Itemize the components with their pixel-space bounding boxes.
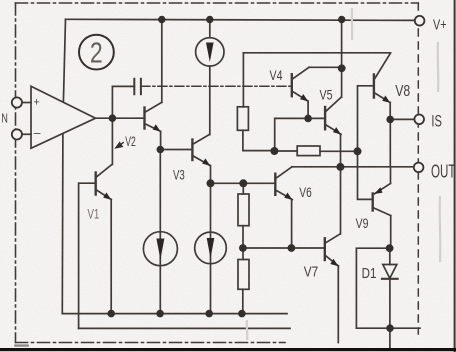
boundary dashed right — [417, 3, 419, 334]
wire V4 emitter node to V5 base — [308, 117, 325, 119]
svg-text:–: – — [34, 126, 41, 140]
svg-text:V7: V7 — [304, 264, 319, 281]
wire +input — [22, 102, 31, 104]
transistor V1 — [80, 164, 112, 313]
wire V1 base to ground line — [78, 183, 80, 328]
resistor R4 — [238, 260, 249, 290]
capacitor C1 — [112, 85, 134, 87]
boundary dash-dot left — [15, 3, 17, 343]
svg-text:IS: IS — [431, 111, 442, 130]
node: V6 emitter / V7 base wire — [288, 244, 296, 252]
V8 collector horizontal wire — [243, 52, 390, 54]
wire V2 emitter node to V3 base — [160, 149, 192, 151]
node: bus / current source I2 — [156, 310, 164, 318]
svg-text:OUT: OUT — [431, 161, 456, 182]
scan artifact: right edge dark line — [454, 0, 456, 352]
node: bus / V1 emitter — [107, 310, 115, 318]
svg-text:V8: V8 — [395, 83, 410, 100]
svg-text:V+: V+ — [433, 16, 447, 33]
wire V4 emitter node left and down to R1 node — [275, 118, 308, 151]
node: rail / V5 collector — [338, 16, 345, 23]
terminal N- — [12, 129, 22, 139]
node: bus / R4 bottom — [238, 310, 246, 318]
arrow current source I1 — [206, 43, 214, 63]
current source I3 (bottom middle) — [195, 232, 227, 264]
node: node A / R3 top — [239, 179, 247, 187]
svg-text:V9: V9 — [356, 215, 369, 231]
arrow V4 emitter — [300, 94, 308, 101]
svg-text:V3: V3 — [173, 166, 185, 182]
arrow V1 emitter — [103, 192, 111, 199]
svg-text:D1: D1 — [362, 265, 377, 282]
terminal V+ — [415, 16, 425, 26]
wire node A to R3 — [242, 183, 244, 194]
wire R3 to node B — [242, 226, 244, 260]
arrow V2 emitter — [153, 124, 161, 131]
transistor V2 — [145, 20, 162, 150]
svg-text:+: + — [33, 97, 39, 109]
wire R1 bottom to node — [243, 130, 275, 150]
svg-text:V6: V6 — [299, 184, 312, 200]
node: V4/V5 collectors — [338, 64, 346, 72]
node: V9 collector / D1 anode — [386, 244, 394, 252]
arrow V5 emitter — [333, 127, 341, 134]
op-amp U1 triangle — [31, 86, 96, 148]
arrow V6 emitter — [284, 193, 292, 200]
arrow V7 emitter — [330, 259, 338, 266]
terminal N+ — [12, 97, 22, 107]
left long vertical wire — [63, 19, 65, 102]
scan artifact: bottom black bar — [0, 348, 456, 351]
wire V8 base — [358, 86, 374, 152]
wire R2 right to V8 base node — [320, 150, 358, 152]
boundary dash-dot top — [16, 2, 419, 4]
node: R1 bottom / V4 divider — [270, 147, 278, 155]
arrow current source I3 — [207, 238, 215, 259]
svg-text:V1: V1 — [87, 205, 99, 221]
circled 2 (block marker) — [79, 35, 114, 70]
wire node B to V7 base — [243, 247, 325, 249]
node: D1 cathode / ground line — [386, 324, 394, 332]
V+ top rail — [66, 19, 415, 20]
node: bus / current source I3 — [205, 310, 213, 318]
arrow V9 emitter (pnp, into base) — [374, 187, 382, 194]
current source I1 (top) — [196, 20, 224, 135]
node: R3/R4 divider / V7 base wire — [239, 244, 247, 252]
compensation dash-dot wire to V4 base — [141, 85, 292, 87]
node: V3 emitter / node A — [207, 179, 215, 187]
OUT rail wire — [292, 166, 414, 168]
wire V2 emitter node down through current source to bus — [159, 150, 161, 314]
node: V2 emitter / V3 base — [157, 146, 165, 154]
transistor V6 — [275, 167, 292, 248]
svg-text:V5: V5 — [320, 87, 333, 103]
scan blob bottom left — [14, 344, 29, 346]
lower ground wire left segment — [79, 327, 290, 329]
wire V8 emitter node to IS terminal — [390, 118, 414, 120]
resistor R2 (horizontal) — [297, 146, 320, 156]
arrow current source I2 — [156, 239, 164, 260]
lower ground wire right segment — [356, 327, 420, 329]
svg-text:N: N — [1, 111, 8, 126]
bottom bus wire — [62, 313, 287, 315]
wire R4 bottom to bus — [242, 289, 244, 313]
diode D1 — [382, 248, 398, 348]
node: rail / current source I1 — [206, 16, 213, 23]
svg-text:V2: V2 — [125, 134, 136, 149]
wire node to horizontal resistor — [274, 150, 297, 152]
transistor V4 — [292, 67, 342, 118]
current source I2 (bottom left) — [143, 232, 177, 266]
svg-text:2: 2 — [90, 38, 103, 70]
wire top of resistor chain from V8 collector rail — [242, 53, 244, 107]
terminal OUT — [414, 163, 424, 173]
emitter / source arrows — [103, 43, 390, 267]
wire output node to capacitor / V1 collector — [111, 86, 113, 164]
wire V8 emitter node down to OUT rail — [389, 119, 391, 166]
resistor R3 — [238, 194, 249, 226]
wire op-amp output to V2 base — [96, 117, 145, 119]
transistor V9 (pnp) — [373, 167, 391, 248]
svg-text:V4: V4 — [270, 67, 283, 83]
wire node A horizontal (V3 emitter to V6 base) — [211, 182, 276, 184]
terminals — [12, 16, 425, 172]
wire -input — [22, 133, 31, 135]
wire V3 emitter node down through current source to bus — [210, 183, 212, 313]
node: rail / V2 collector — [158, 16, 165, 23]
node: V8 base / R2 — [354, 147, 362, 155]
transistor V7 — [325, 234, 340, 343]
arrow V8 emitter — [382, 96, 390, 103]
arrow V3 emitter — [202, 158, 210, 165]
resistor R1 — [237, 107, 248, 131]
node: OUT rail / V5 emitter / V7 collector — [336, 163, 344, 171]
scan smudge streaks — [247, 8, 441, 340]
transistor V5 — [325, 20, 342, 234]
wire D1 anode node left and down to ground line — [356, 248, 389, 328]
annotation arrow at V2 — [116, 142, 124, 148]
boundary dash-dot bottom — [16, 342, 286, 344]
node: V4 emitter / V5 base — [304, 115, 312, 123]
node: V8 emitter / IS — [386, 116, 394, 124]
transistor V3 — [192, 135, 210, 184]
terminal IS — [414, 115, 424, 125]
node: op-amp output — [109, 114, 117, 122]
transistor V8 — [374, 53, 391, 119]
wire V9 base from V8 base node — [358, 151, 373, 199]
